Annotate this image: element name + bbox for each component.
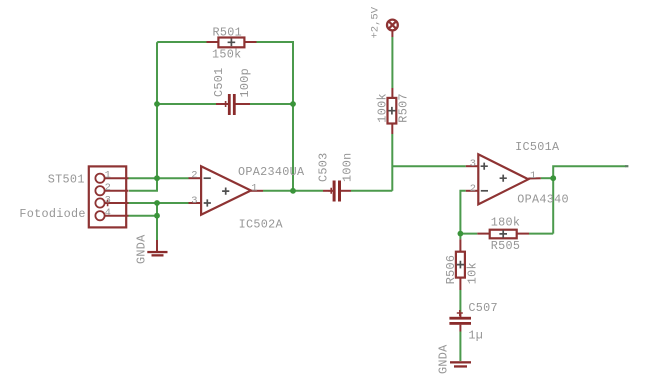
svg-text:R505: R505 [491,239,521,253]
svg-text:10k: 10k [466,262,480,284]
svg-text:ST501: ST501 [48,173,85,187]
svg-text:100k: 100k [376,93,390,123]
svg-text:2: 2 [470,183,476,195]
svg-text:GNDA: GNDA [436,344,450,374]
svg-text:IC502A: IC502A [239,218,284,232]
svg-text:180k: 180k [491,216,521,230]
svg-text:GNDA: GNDA [135,234,149,264]
svg-text:R506: R506 [444,255,458,285]
svg-text:2: 2 [105,182,111,194]
svg-text:IC501A: IC501A [515,140,560,154]
svg-text:2: 2 [191,169,197,181]
svg-text:OPA2340UA: OPA2340UA [238,165,305,179]
svg-text:3: 3 [105,195,111,207]
svg-text:+2,5V: +2,5V [370,6,382,38]
svg-text:100p: 100p [238,68,252,98]
svg-text:C507: C507 [468,301,498,315]
svg-text:R507: R507 [396,93,410,123]
svg-text:C501: C501 [212,67,226,97]
svg-text:100n: 100n [341,152,355,182]
svg-text:150k: 150k [212,47,242,61]
svg-text:3: 3 [191,195,197,207]
svg-text:4: 4 [105,207,111,219]
svg-text:1µ: 1µ [468,329,483,343]
svg-text:OPA4340: OPA4340 [517,192,569,206]
svg-text:C503: C503 [316,152,330,182]
svg-text:Fotodiode: Fotodiode [19,207,85,221]
svg-text:R501: R501 [213,25,243,39]
svg-text:1: 1 [251,183,257,195]
svg-text:1: 1 [105,170,111,182]
svg-text:3: 3 [470,158,476,170]
svg-text:1: 1 [530,170,536,182]
